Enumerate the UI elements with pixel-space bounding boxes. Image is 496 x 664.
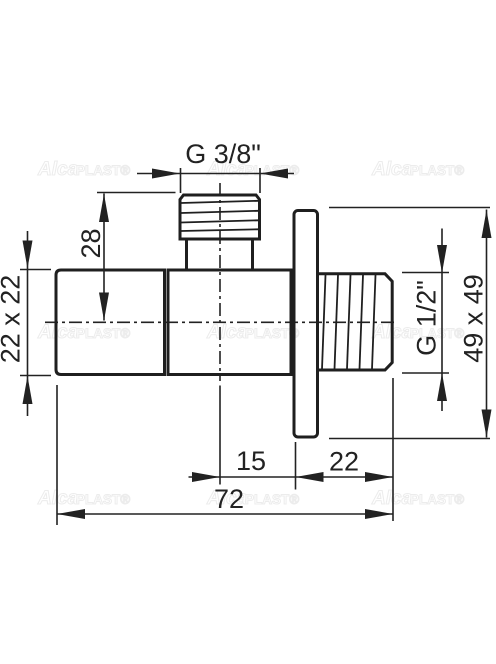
svg-text:Alca: Alca (206, 322, 248, 343)
svg-text:Alca: Alca (371, 159, 413, 180)
vertical centre axis (219, 183, 221, 381)
svg-text:Alca: Alca (371, 488, 413, 509)
wall flange plate (294, 211, 318, 438)
bottom extension lines (57, 378, 393, 525)
svg-text:PLAST®: PLAST® (410, 163, 464, 178)
dimension 49 x 49 (329, 208, 490, 439)
svg-text:Alca: Alca (37, 322, 79, 343)
thread lines G3/8 cap (181, 201, 259, 231)
dimension 15 and 22 (189, 476, 394, 478)
svg-text:72: 72 (214, 484, 244, 514)
svg-text:PLAST®: PLAST® (410, 492, 464, 507)
svg-text:G 3/8": G 3/8" (185, 139, 261, 169)
G3/8 thread cap (180, 195, 260, 239)
svg-text:22: 22 (329, 447, 359, 477)
dimension 22 x 22 (20, 231, 51, 416)
cap neck (187, 239, 253, 270)
svg-text:22 x 22: 22 x 22 (0, 275, 26, 364)
valve body left section (56, 270, 165, 375)
dimension 72 (57, 513, 393, 515)
dimension 28 (97, 193, 176, 321)
svg-text:PLAST®: PLAST® (76, 326, 130, 341)
valve body middle section (168, 270, 291, 375)
horizontal centre axis (45, 321, 398, 323)
svg-text:G 1/2": G 1/2" (412, 280, 442, 356)
svg-text:49 x 49: 49 x 49 (459, 274, 489, 363)
svg-text:PLAST®: PLAST® (76, 163, 130, 178)
G1/2 thread body (318, 274, 393, 370)
watermark AlcaPLAST grid (37, 159, 464, 509)
svg-text:15: 15 (236, 446, 266, 476)
svg-text:PLAST®: PLAST® (76, 492, 130, 507)
thread lines G1/2 (322, 275, 376, 369)
dimension G 1/2" (402, 229, 449, 412)
svg-text:Alca: Alca (37, 159, 79, 180)
svg-text:PLAST®: PLAST® (245, 492, 299, 507)
dimension G 3/8" (137, 168, 294, 193)
svg-text:28: 28 (76, 228, 106, 258)
